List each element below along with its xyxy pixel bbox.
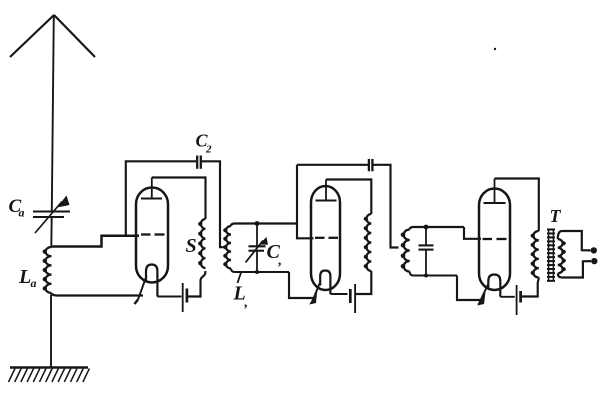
wire [50, 218, 52, 247]
wire [157, 296, 181, 298]
wire [50, 295, 52, 368]
V3 plate [484, 179, 506, 204]
svg-text:a: a [19, 206, 25, 220]
coil La [43, 247, 52, 293]
wire [188, 271, 206, 297]
wire [231, 224, 297, 227]
battery B3 [517, 285, 521, 315]
wire [374, 165, 399, 248]
label La [18, 266, 37, 290]
svg-text:,: , [244, 296, 249, 311]
capacitor Ca [33, 196, 70, 234]
battery B2 [350, 284, 355, 313]
wire [297, 164, 368, 166]
capacitor C3 [369, 159, 373, 171]
tube V3 [479, 189, 510, 290]
speck [494, 48, 496, 50]
tube V2 [311, 186, 340, 290]
wire [558, 231, 591, 250]
transformer T secondary [558, 239, 566, 274]
V1 plate [141, 178, 162, 199]
svg-text:,: , [278, 254, 283, 269]
label T [550, 206, 562, 226]
transformer T primary [531, 231, 539, 278]
wire [522, 278, 539, 297]
wire [495, 179, 539, 232]
label C2 [196, 131, 213, 156]
node tank1 top [255, 221, 260, 226]
wire [356, 271, 371, 294]
node tank1 bottom [255, 270, 259, 274]
wire [202, 161, 227, 247]
svg-text:S: S [186, 235, 197, 257]
svg-text:2: 2 [205, 144, 212, 156]
V2 plate [316, 180, 337, 201]
V3 grid [483, 238, 507, 240]
V3 filament lead [477, 284, 488, 306]
wire [297, 165, 314, 239]
antenna [10, 15, 95, 211]
label Ca [9, 196, 25, 220]
coil L1 [223, 226, 231, 269]
label L1 [233, 273, 249, 311]
label S [186, 235, 197, 257]
wire [326, 180, 371, 215]
V2 grid [315, 237, 338, 239]
ground [9, 368, 90, 383]
battery B1 [183, 283, 187, 312]
wire [52, 236, 140, 247]
coil S2 [364, 214, 372, 271]
svg-text:T: T [550, 206, 562, 226]
coil L2 [401, 230, 410, 272]
wire [410, 227, 464, 230]
label C1 [267, 241, 283, 269]
capacitor C2 [197, 156, 201, 169]
wire [52, 293, 143, 296]
V2 filament [320, 271, 330, 295]
wire [330, 293, 347, 295]
terminal top [591, 247, 597, 253]
terminal bottom [591, 258, 597, 264]
node tank2 bottom [424, 274, 428, 278]
wire [289, 272, 314, 298]
transformer T core [547, 229, 555, 281]
V1 filament [146, 265, 157, 297]
wire [464, 227, 481, 239]
capacitor C1 [246, 224, 269, 273]
node tank2 top [424, 225, 429, 230]
capacitor C4 [419, 227, 434, 276]
wire [457, 276, 483, 301]
tube V1 [136, 188, 168, 283]
wire [231, 269, 289, 273]
V1 filament lead [135, 276, 147, 304]
wire [558, 261, 591, 277]
V2 filament lead [309, 283, 320, 305]
coil S [198, 219, 205, 268]
V1 grid [141, 233, 165, 235]
wire [126, 161, 196, 236]
svg-text:L: L [18, 266, 31, 288]
wire [410, 272, 457, 276]
wire [500, 296, 515, 298]
V3 filament [488, 275, 500, 297]
svg-text:a: a [31, 276, 37, 290]
wire [152, 178, 206, 220]
